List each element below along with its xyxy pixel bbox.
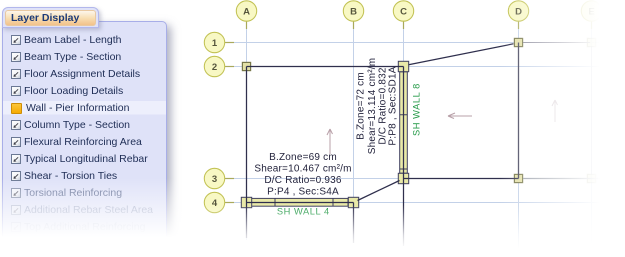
svg-text:B.Zone=69 cm: B.Zone=69 cm	[269, 152, 337, 163]
svg-text:1: 1	[212, 38, 218, 49]
svg-text:B: B	[350, 7, 357, 18]
svg-text:Shear=10.467 cm²/m: Shear=10.467 cm²/m	[254, 164, 351, 175]
svg-text:D/C Ratio=0.936: D/C Ratio=0.936	[264, 175, 341, 186]
svg-text:C: C	[400, 7, 407, 18]
svg-text:P:P8 , Sec:SD1A: P:P8 , Sec:SD1A	[388, 66, 399, 145]
svg-text:2: 2	[212, 62, 217, 73]
svg-text:A: A	[243, 7, 250, 18]
svg-text:Shear=13.114 cm²/m: Shear=13.114 cm²/m	[367, 58, 378, 155]
svg-text:3: 3	[212, 174, 217, 185]
svg-text:P:P4 , Sec:S4A: P:P4 , Sec:S4A	[267, 186, 339, 197]
svg-text:B.Zone=72 cm: B.Zone=72 cm	[356, 72, 367, 140]
svg-text:SH WALL 8: SH WALL 8	[412, 83, 422, 136]
